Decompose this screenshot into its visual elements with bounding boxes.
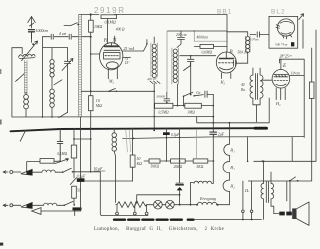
resistor R7 50K [130, 129, 142, 181]
svg-text:20KΩ: 20KΩ [174, 165, 183, 169]
svg-text:30000: 30000 [157, 95, 166, 99]
lamp La2 [166, 200, 175, 209]
wire (L7 bottom drop to bus) [153, 117, 155, 131]
wire (anode supply line) [279, 59, 304, 137]
svg-text:4000cm: 4000cm [197, 36, 209, 40]
wire (corner y122.8) [197, 98, 270, 123]
svg-text:BL2: BL2 [271, 9, 286, 16]
switch S9 [70, 178, 76, 185]
transformer T2 (output) [261, 160, 274, 219]
resistor R6 50 [72, 186, 81, 205]
tube V3 BL2 [276, 19, 295, 39]
svg-text:25 ºmA: 25 ºmA [124, 47, 135, 51]
coil L11 [44, 203, 65, 205]
resistor R14 (right edge) [309, 82, 314, 99]
edge artifact [0, 120, 2, 125]
svg-text:Erregung: Erregung [199, 196, 216, 201]
wire (tube E anode) [290, 75, 305, 77]
svg-text:5KΩ: 5KΩ [197, 165, 204, 169]
capacitor 2uF [210, 132, 225, 137]
svg-text:200 cm: 200 cm [176, 33, 187, 37]
switch S7 [184, 62, 191, 71]
lamp La1 [154, 200, 163, 209]
coil L7 (IF ladder) [151, 37, 158, 117]
switch S10 [63, 168, 72, 172]
wire (cathode row) [81, 90, 154, 92]
switch S12 Gr [184, 92, 193, 105]
svg-text:MΩ: MΩ [95, 103, 102, 108]
switch S5 [144, 40, 147, 52]
wire (LC branch left) [43, 37, 68, 117]
coil L13 (field row upper) [194, 181, 213, 183]
switch S11 [64, 201, 73, 205]
capacitor 1000cm (antenna series cap) [29, 28, 49, 38]
resistor R10 5K [193, 159, 208, 169]
wire (grid line tube B) [180, 55, 216, 57]
svg-text:H₂: H₂ [229, 148, 235, 153]
svg-text:M₂: M₂ [108, 79, 114, 84]
svg-text:ℓL: ℓL [245, 188, 250, 193]
capacitor (Gr) [194, 91, 213, 97]
coil L8 (osc ladder) [172, 48, 179, 84]
svg-text:10⁶cm: 10⁶cm [291, 72, 300, 76]
coil L9 [227, 32, 250, 53]
switch S4 (band switch) [64, 23, 77, 26]
mains dashed bar [114, 218, 184, 220]
terminals 2L [242, 181, 253, 220]
resistor R1 1M [89, 15, 103, 172]
resistor R12 3M [185, 103, 202, 114]
svg-text:H₃: H₃ [275, 101, 281, 106]
capacitor 0,5uF (block) [77, 178, 85, 182]
capacitor 30000 [157, 93, 170, 104]
wire (anode to switch) [122, 51, 143, 58]
capacitor 10000cm [250, 32, 269, 42]
svg-text:50: 50 [137, 157, 141, 161]
switch S3 [54, 80, 62, 85]
svg-text:400·10³: 400·10³ [147, 77, 157, 81]
resistor R11 0,5M [155, 103, 173, 115]
wire (top bus y14.5) [79, 14, 227, 16]
switch S1 (antenna) [31, 32, 33, 43]
tube V1 (triode) [100, 19, 123, 79]
arrow (tuning indicator) [299, 14, 304, 20]
wire (vertical x227) [226, 15, 228, 53]
capacitor 500cm [233, 51, 248, 67]
svg-text:KΩ: KΩ [136, 162, 143, 166]
wire (x213.3 vertical) [212, 94, 214, 183]
svg-text:40: 40 [241, 83, 245, 87]
switch S6 (cathode circuit) [110, 89, 115, 91]
capacitor (speaker blocks) [274, 212, 292, 216]
terminal (pickup 1) [3, 171, 21, 174]
resistor row y161 [144, 160, 214, 162]
switch (var cap bottom) [59, 113, 67, 118]
main bus (heavy) [11, 128, 257, 131]
transformer T1 [250, 68, 263, 122]
svg-text:H₁: H₁ [229, 165, 235, 170]
coil L6 (long vertical ladder winding) [79, 15, 82, 117]
coil L5 (lower tuning winding) [50, 89, 55, 117]
svg-text:B: B [230, 50, 233, 55]
choke L12 [112, 129, 117, 203]
svg-text:10 μF: 10 μF [94, 167, 104, 171]
svg-text:1MΩ: 1MΩ [94, 24, 102, 29]
potentiometer wedge P1 [21, 169, 42, 175]
wire (bottom horizontal bus y117) [12, 116, 213, 118]
wire (left bus from variometer) [12, 48, 22, 117]
node (R1 top) [90, 13, 92, 15]
antenna [28, 17, 36, 29]
wire (L8 bottom drop) [177, 84, 179, 106]
svg-text:Gr: Gr [196, 90, 201, 95]
svg-text:Lumophon, Burggraf G II, Gle: Lumophon, Burggraf G II, Gleichstrom, 2 … [94, 227, 224, 232]
capacitor (black blob) [291, 42, 294, 46]
heater chain H2 H1 H2 [223, 123, 229, 205]
coil L4 (tuning coil) [50, 48, 54, 89]
resistor R5 0,1M (pot) [55, 129, 92, 178]
capacitor 4cm [69, 34, 71, 39]
capacitor 0,5uF (bus) [163, 132, 170, 135]
svg-text:Ra: Ra [240, 88, 245, 92]
variable capacitor C (tuning) [62, 48, 73, 113]
capacitor C (coupling to B) [187, 56, 194, 95]
resistor R2 0,1M [101, 15, 117, 25]
variometer L1 [19, 41, 38, 61]
wire (corner y161.3 right) [254, 30, 316, 161]
wire (light drop) [196, 129, 198, 159]
wire (lamp row) [147, 204, 196, 206]
resistor R9 20K [171, 159, 186, 169]
svg-text:H₂: H₂ [229, 184, 235, 189]
svg-text:2μF: 2μF [218, 133, 225, 137]
tube V4 E [272, 59, 290, 99]
edge artifact [0, 69, 1, 74]
node [194, 30, 196, 32]
node (4cm wire at R1) [90, 36, 92, 38]
svg-text:500 ¹⁰cm: 500 ¹⁰cm [275, 43, 288, 47]
capacitor 4000cm [194, 31, 227, 41]
wire (x82.7 drop) [80, 117, 82, 211]
svg-text:3MΩ: 3MΩ [188, 111, 196, 115]
coil L3 (lower antenna coil) [24, 92, 29, 117]
terminal (pickup 2) [3, 204, 21, 207]
svg-text:10⁰cm: 10⁰cm [250, 38, 259, 42]
potentiometer wedge P2 [21, 203, 44, 209]
switch (output) [290, 177, 296, 181]
wire (wiper line) [135, 195, 179, 204]
wire (corner y136.6) [123, 134, 305, 161]
tube V2 B [216, 52, 236, 79]
wire (tube E grid) [262, 79, 272, 81]
rheostat (zigzag) [116, 202, 148, 215]
capacitor (left 4cm) [51, 34, 53, 39]
capacitor (electrolytic below row2) [73, 207, 82, 210]
arrow (mains pointer) [32, 208, 81, 215]
wire (hf line y31) [168, 30, 228, 32]
resistor R8 50K [149, 159, 160, 169]
tube V3 BL2 box [269, 16, 298, 48]
switch S2 (coil tap) [16, 74, 25, 82]
nodes on bus [59, 127, 180, 129]
bus end blob [255, 127, 267, 130]
wire (tuned circuit top, 4cm caps) [43, 36, 91, 38]
capacitor + rectifier (cap/triangle on x179.6) [176, 129, 183, 205]
svg-text:400 Ω: 400 Ω [116, 28, 125, 32]
wire (resistor row y105.6) [173, 105, 213, 107]
wire (row1 to right) [73, 172, 149, 216]
antenna coil L2 (tapped ladder) [24, 61, 27, 94]
switch S8 (hanging from bus left) [20, 132, 25, 142]
resistor R13 (tone) [26, 159, 61, 173]
coil L10 [42, 170, 63, 172]
svg-text:4 cm: 4 cm [59, 32, 67, 36]
node [262, 160, 264, 162]
svg-text:2919R: 2919R [94, 6, 126, 15]
wire (y181.5 link) [85, 180, 133, 182]
resistor R3 10M [89, 96, 103, 111]
wire (faint pair) [126, 130, 131, 152]
speaker [292, 202, 309, 225]
capacitor C (bus drop x60.2) [57, 129, 63, 161]
svg-text:28°25ʳᴹ: 28°25ʳᴹ [280, 54, 293, 58]
svg-text:1000cm: 1000cm [36, 28, 49, 33]
wire (grid feed) [91, 53, 100, 55]
resistor R4 0,6M [194, 44, 227, 55]
coil L14 Erregung [196, 202, 229, 205]
wire (corner y185.3) [248, 48, 311, 181]
edge artifact [0, 243, 3, 246]
svg-text:H₂: H₂ [220, 80, 226, 85]
svg-text:50KΩ: 50KΩ [151, 165, 160, 169]
capacitor 200cm [176, 31, 187, 48]
svg-text:15º: 15º [125, 61, 131, 65]
wire (x190.5) [191, 182, 194, 204]
wire (to caps) [287, 181, 290, 212]
wire (light drop) [166, 31, 168, 93]
